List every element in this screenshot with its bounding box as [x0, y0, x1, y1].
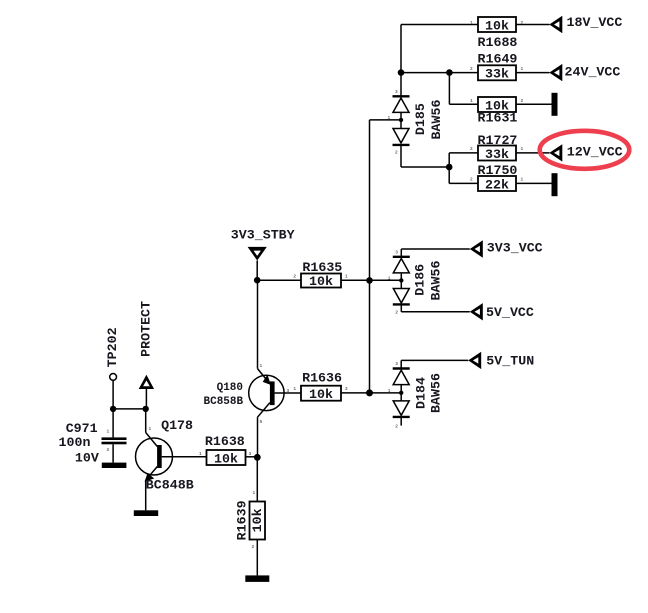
- wire R1631 branch vertical: [448, 73, 450, 105]
- capacitor C971: [59, 409, 127, 465]
- svg-text:1: 1: [388, 276, 391, 282]
- transistor Q178 (BC848B NPN): [136, 409, 207, 510]
- resistor R1636: [293, 370, 348, 402]
- svg-text:1: 1: [345, 274, 348, 280]
- svg-text:R1688: R1688: [478, 35, 518, 50]
- svg-text:R1649: R1649: [478, 51, 518, 66]
- wire R1750 row left: [449, 182, 478, 184]
- wire node row TP202/PROTECT: [113, 408, 146, 410]
- svg-text:1: 1: [107, 429, 110, 435]
- wire 3V3_STBY stem: [256, 261, 258, 281]
- svg-text:1: 1: [521, 66, 524, 72]
- svg-text:5V_TUN: 5V_TUN: [486, 354, 534, 369]
- svg-text:D184: D184: [414, 377, 429, 409]
- resistor R1750: [470, 163, 524, 192]
- node junction 24V row at x401: [398, 69, 405, 76]
- svg-text:33k: 33k: [485, 67, 509, 82]
- svg-text:3: 3: [287, 388, 290, 394]
- svg-text:22k: 22k: [485, 177, 509, 192]
- node junction 3V3_STBY: [254, 277, 261, 284]
- svg-text:1: 1: [293, 386, 296, 392]
- wire 3V3_VCC row: [401, 248, 470, 250]
- ground below Q178: [134, 510, 158, 516]
- svg-text:2: 2: [345, 386, 348, 392]
- diode D185 (BAW56 dual): [388, 89, 444, 167]
- svg-text:D185: D185: [413, 103, 428, 135]
- node junction PROTECT: [143, 406, 149, 412]
- svg-text:3V3_VCC: 3V3_VCC: [487, 241, 543, 256]
- svg-text:1: 1: [253, 490, 256, 496]
- wire R1638 right: [246, 456, 258, 458]
- svg-text:1: 1: [388, 388, 391, 394]
- svg-text:10V: 10V: [75, 450, 99, 465]
- svg-text:33k: 33k: [485, 147, 509, 162]
- svg-text:BAW56: BAW56: [429, 100, 444, 140]
- svg-text:3: 3: [395, 250, 398, 256]
- svg-text:TP202: TP202: [105, 327, 120, 367]
- wire R1631 row right: [516, 103, 552, 105]
- node junction 12V branch: [446, 164, 453, 171]
- svg-text:2: 2: [470, 177, 473, 183]
- resistor R1727: [470, 133, 524, 162]
- svg-text:1: 1: [470, 98, 473, 104]
- svg-text:2: 2: [470, 66, 473, 72]
- svg-text:2: 2: [395, 424, 398, 430]
- svg-text:BC858B: BC858B: [204, 396, 244, 408]
- svg-text:5V_VCC: 5V_VCC: [486, 305, 534, 320]
- svg-text:R1635: R1635: [302, 260, 342, 275]
- svg-text:3: 3: [395, 89, 398, 95]
- node junction R1638/R1639: [254, 454, 261, 461]
- wire R1639 bottom: [256, 540, 258, 576]
- svg-text:1: 1: [470, 20, 473, 26]
- svg-text:18V_VCC: 18V_VCC: [567, 15, 623, 30]
- wire R1639 top: [256, 457, 258, 501]
- wire 24V row right: [516, 72, 550, 74]
- resistor R1638: [199, 434, 252, 466]
- svg-text:2: 2: [395, 310, 398, 316]
- wire R1635 right to bus: [341, 279, 401, 281]
- svg-text:1: 1: [149, 426, 152, 432]
- svg-text:BC848B: BC848B: [146, 477, 194, 492]
- node junction TP202: [110, 406, 116, 412]
- wire 18V row left: [401, 24, 478, 26]
- wire 18V top vertical: [400, 25, 402, 97]
- svg-text:3V3_STBY: 3V3_STBY: [231, 228, 295, 243]
- port 18V_VCC: [549, 15, 622, 33]
- wire R1636 right to bus: [341, 392, 401, 394]
- resistor R1631: [470, 97, 524, 126]
- svg-text:R1636: R1636: [302, 370, 342, 385]
- ground bar right of R1631: [552, 93, 558, 116]
- wire D185 anode to bus: [370, 119, 402, 121]
- svg-text:D186: D186: [413, 264, 428, 296]
- wire 24V row left: [401, 72, 478, 74]
- svg-text:100n: 100n: [59, 435, 91, 450]
- svg-text:BAW56: BAW56: [429, 373, 444, 413]
- svg-text:1: 1: [199, 451, 202, 457]
- svg-text:3: 3: [395, 361, 398, 367]
- power symbol PROTECT: [139, 301, 155, 409]
- svg-text:2: 2: [521, 98, 524, 104]
- testpoint TP202: [105, 327, 120, 408]
- port 3V3_VCC: [470, 240, 543, 257]
- wire D185 bottom row: [401, 166, 449, 168]
- wire 5V_TUN row: [401, 359, 468, 361]
- port 12V_VCC: [549, 144, 622, 161]
- svg-text:2: 2: [470, 146, 473, 152]
- port 24V_VCC: [549, 64, 620, 81]
- red highlight ellipse: [540, 131, 630, 169]
- svg-text:10k: 10k: [309, 274, 333, 289]
- svg-text:1: 1: [521, 146, 524, 152]
- main vertical bus: [369, 120, 371, 393]
- svg-text:R1638: R1638: [205, 434, 245, 449]
- svg-text:R1631: R1631: [478, 111, 518, 126]
- svg-text:2: 2: [293, 274, 296, 280]
- svg-text:Q178: Q178: [161, 418, 193, 433]
- wire R1727 row right: [516, 152, 550, 154]
- node junction bus / R1635: [366, 277, 373, 284]
- wire R1750 row right: [516, 182, 552, 184]
- svg-text:24V_VCC: 24V_VCC: [565, 65, 621, 80]
- wire R1727 row left: [449, 152, 478, 154]
- port 5V_VCC: [470, 303, 534, 320]
- svg-text:Q180: Q180: [217, 382, 243, 394]
- svg-text:1: 1: [521, 177, 524, 183]
- wire 12V branch vertical: [448, 153, 450, 184]
- wire 5V_VCC row: [401, 311, 470, 313]
- svg-text:10k: 10k: [250, 508, 265, 532]
- svg-text:10k: 10k: [214, 451, 238, 466]
- svg-text:2: 2: [252, 544, 255, 550]
- diode D184 (BAW56 dual): [388, 360, 444, 429]
- svg-text:12V_VCC: 12V_VCC: [567, 145, 623, 160]
- resistor R1688: [470, 17, 524, 50]
- ground below R1639: [245, 575, 269, 582]
- diode D186 (BAW56 dual): [388, 249, 444, 316]
- transistor Q180 (BC858B PNP): [204, 280, 302, 457]
- node junction bus / R1636: [366, 389, 373, 396]
- port 5V_TUN: [468, 352, 534, 369]
- svg-text:2: 2: [521, 20, 524, 26]
- resistor R1649: [470, 51, 524, 81]
- svg-text:5: 5: [260, 419, 263, 425]
- power label 3V3_STBY: [231, 228, 295, 261]
- svg-text:2: 2: [107, 447, 110, 453]
- ground bar right of R1750: [552, 173, 558, 196]
- svg-text:R1639: R1639: [235, 500, 250, 540]
- node junction 24V row at x449: [446, 69, 453, 76]
- wire R1631 row left: [449, 103, 478, 105]
- svg-text:10k: 10k: [485, 18, 509, 33]
- svg-text:C971: C971: [66, 421, 98, 436]
- svg-text:2: 2: [395, 150, 398, 156]
- svg-text:BAW56: BAW56: [429, 261, 444, 301]
- resistor R1639: [235, 490, 266, 550]
- svg-text:10k: 10k: [309, 387, 333, 402]
- svg-text:1: 1: [260, 363, 263, 369]
- wire R1635 left: [257, 279, 301, 281]
- svg-text:PROTECT: PROTECT: [139, 301, 154, 357]
- resistor R1635: [293, 260, 348, 289]
- wire 18V row right: [516, 24, 550, 26]
- ground below C971: [102, 463, 127, 468]
